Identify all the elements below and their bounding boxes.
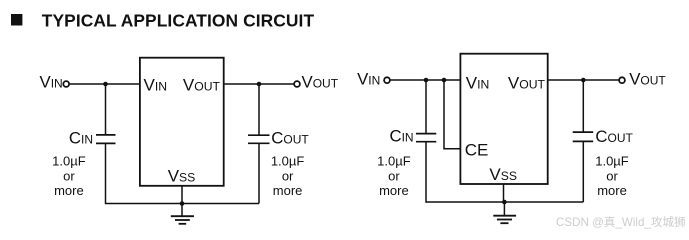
wire U2 VOUT to terminal — [548, 79, 619, 81]
svg-text:1.0µF: 1.0µF — [271, 153, 305, 168]
regulator U2 body (right circuit) — [460, 54, 547, 184]
regulator U1 body (left circuit) — [140, 58, 224, 186]
wire VSS pin to ground rail — [181, 186, 183, 204]
svg-text:TYPICAL APPLICATION CIRCUIT: TYPICAL APPLICATION CIRCUIT — [42, 10, 315, 30]
wire CE branch — [444, 80, 461, 149]
capacitor COUT (left circuit) — [248, 135, 270, 143]
value label COUT 1.0uF or more — [271, 153, 305, 198]
junction node COUT tap — [257, 82, 262, 87]
svg-text:or: or — [388, 168, 400, 183]
junction node CIN tap — [103, 82, 108, 87]
svg-text:CE: CE — [465, 141, 489, 160]
junction node CIN tap (right) — [424, 78, 429, 83]
svg-text:more: more — [273, 183, 303, 198]
wire CIN upper branch — [105, 84, 107, 135]
svg-text:1.0µF: 1.0µF — [377, 153, 411, 168]
junction ground rail / VSS (right) — [502, 200, 507, 205]
value label CIN 1.0uF or more (right) — [377, 153, 411, 198]
svg-text:1.0µF: 1.0µF — [52, 153, 86, 168]
junction ground rail / VSS — [180, 201, 185, 206]
wire VIN terminal to U2 pin VIN — [391, 79, 462, 81]
svg-text:CSDN @真_Wild_攻城狮: CSDN @真_Wild_攻城狮 — [556, 215, 686, 229]
terminal VOUT (left circuit) — [294, 81, 300, 87]
title bullet — [11, 14, 22, 26]
wire VIN terminal to U1 pin VIN — [70, 83, 141, 85]
wire ground rail (left circuit) — [106, 203, 260, 205]
svg-text:more: more — [379, 183, 409, 198]
junction node CE tap (right) — [442, 78, 447, 83]
capacitor CIN (right circuit) — [416, 134, 436, 142]
svg-text:or: or — [282, 168, 294, 183]
wire ground rail (right circuit) — [426, 201, 583, 203]
svg-text:1.0µF: 1.0µF — [595, 153, 629, 168]
value label COUT 1.0uF or more (right) — [595, 153, 629, 198]
svg-text:or: or — [606, 168, 618, 183]
terminal VIN (left circuit) — [63, 81, 69, 87]
wire COUT upper branch — [258, 84, 260, 135]
wire CIN lower branch — [105, 143, 107, 204]
capacitor CIN (left circuit) — [96, 135, 116, 144]
wire VSS pin to ground rail (right) — [503, 184, 505, 202]
junction node COUT tap (right) — [581, 78, 586, 83]
wire CIN lower branch (right) — [425, 142, 427, 203]
wire U1 VOUT to terminal — [224, 83, 295, 85]
wire COUT lower branch (right) — [582, 141, 584, 202]
svg-text:more: more — [54, 183, 84, 198]
wire COUT upper branch (right) — [582, 80, 584, 132]
wire COUT lower branch — [258, 143, 260, 203]
svg-text:or: or — [63, 168, 75, 183]
ground symbol (right circuit) — [493, 202, 516, 223]
wire CIN upper branch (right) — [425, 80, 427, 134]
ground symbol (left circuit) — [171, 204, 194, 224]
terminal VIN (right circuit) — [384, 77, 390, 83]
svg-text:more: more — [597, 183, 627, 198]
capacitor COUT (right circuit) — [573, 132, 594, 141]
value label CIN 1.0uF or more — [52, 153, 86, 198]
terminal VOUT (right circuit) — [619, 77, 625, 83]
